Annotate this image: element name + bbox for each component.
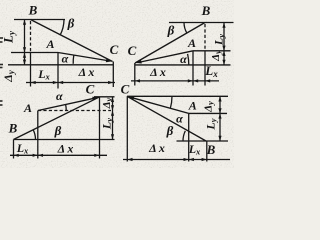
arrow up at A level	[111, 111, 114, 116]
vertical extension below A	[192, 51, 194, 86]
arrows at A vertical	[53, 81, 58, 84]
svg-text:A: A	[23, 101, 32, 115]
bottom dimension line dx / Lx	[131, 80, 219, 82]
arrows at A vertical	[184, 158, 189, 161]
left page-edge artifacts	[0, 38, 3, 105]
vertical extension below C	[134, 63, 136, 86]
bottom dimension line Lx / dx	[26, 82, 115, 84]
arrows at A vertical	[188, 79, 193, 82]
paper grain speckle	[0, 0, 234, 168]
solid vertical extension below B to dimension line	[30, 53, 32, 87]
line C-B	[127, 96, 206, 141]
baseline through C	[8, 64, 113, 66]
svg-text:Δy: Δy	[210, 50, 223, 62]
line B-C	[135, 23, 205, 64]
dashed vertical extension below B	[30, 21, 32, 53]
arrow up at A level	[218, 113, 221, 118]
arrow up at A level	[23, 53, 26, 58]
svg-text:C: C	[128, 43, 137, 58]
arrow down at C baseline	[23, 60, 26, 65]
svg-text:C: C	[121, 82, 130, 97]
svg-text:α: α	[62, 52, 69, 66]
vertical extension below A	[37, 111, 39, 159]
horizontal reference line through A	[193, 50, 231, 52]
vertical extension below A	[57, 53, 59, 89]
svg-text:Δy: Δy	[203, 101, 216, 113]
angle beta arc at B	[60, 20, 64, 36]
horizontal reference line through B	[169, 22, 234, 24]
vertical extension below C	[126, 96, 128, 161]
svg-text:A: A	[188, 99, 197, 113]
svg-text:A: A	[187, 36, 196, 50]
line A-C with arrow at C	[38, 98, 94, 110]
svg-text:A: A	[45, 37, 54, 51]
arrow right at B vertical	[202, 158, 207, 161]
arrow left at C vertical	[135, 79, 140, 82]
left dimension line Ly / dy	[24, 20, 26, 65]
arrow left at B vertical	[205, 79, 210, 82]
edge mark 2	[0, 64, 3, 66]
arrow right at C vertical	[94, 154, 99, 157]
angle alpha arc at A	[65, 104, 68, 110]
svg-text:α: α	[176, 112, 183, 126]
line A-C with arrow at C	[141, 51, 193, 62]
horizontal reference line through B	[14, 19, 65, 21]
arrow down at B level	[218, 136, 221, 141]
vertical extension below B	[13, 140, 15, 159]
arrow down at A level	[218, 108, 221, 113]
arrow up at C baseline	[111, 97, 114, 102]
edge mark 1	[0, 37, 3, 39]
edge mark 3	[0, 100, 3, 102]
arrow up at A level	[222, 51, 225, 56]
arrow left at B vertical	[31, 81, 36, 84]
baseline through C	[127, 95, 228, 97]
svg-text:Δx: Δx	[149, 65, 166, 79]
vertical extension below B	[206, 141, 208, 162]
angle alpha arc near C	[72, 55, 75, 64]
svg-text:α: α	[180, 52, 187, 66]
arrows at A vertical	[33, 154, 38, 157]
svg-text:β: β	[167, 23, 175, 38]
right dimension line dy / Ly	[219, 96, 221, 141]
svg-text:B: B	[8, 121, 18, 136]
arrow left at C vertical	[127, 158, 132, 161]
arrow down at A level	[23, 47, 26, 52]
horizontal reference line through A	[11, 52, 58, 54]
line A-C with arrow at C	[58, 53, 107, 61]
angle alpha arc near C	[170, 96, 172, 108]
arrow up at B level	[222, 23, 225, 28]
dashed vertical extension below B	[204, 24, 206, 51]
line C-A with arrow at C	[132, 98, 189, 114]
arrow up at B level	[23, 20, 26, 25]
arrow left at B vertical	[14, 154, 19, 157]
horizontal reference line through A	[189, 112, 227, 114]
svg-text:C: C	[86, 82, 95, 97]
arrow up at C baseline	[218, 96, 221, 101]
svg-text:β: β	[54, 123, 62, 138]
bottom dimension line Lx / dx	[10, 154, 107, 156]
bottom dimension line dx / Lx	[123, 159, 230, 161]
right dimension line Ly / dy	[223, 23, 225, 65]
svg-text:Δy: Δy	[101, 97, 114, 109]
angle beta arc at B	[33, 130, 35, 140]
baseline through C (short, to the right)	[94, 96, 115, 98]
line B-C	[31, 20, 113, 62]
arrow down at A level	[111, 105, 114, 110]
arrow right at C vertical	[108, 81, 113, 84]
angle beta arc at B	[183, 131, 185, 141]
svg-text:β: β	[166, 123, 174, 138]
arrow down at B level	[111, 134, 114, 139]
vertical extension below C	[99, 97, 101, 159]
baseline through C	[135, 64, 231, 66]
horizontal reference line through B	[14, 139, 115, 141]
angle beta arc at B	[184, 23, 187, 34]
arrow down at C baseline	[222, 60, 225, 65]
dashed horizontal reference line through A	[38, 110, 111, 112]
horizontal reference line through B	[177, 140, 229, 142]
svg-text:α: α	[56, 89, 63, 103]
svg-text:Δx: Δx	[148, 141, 165, 155]
svg-text:B: B	[201, 3, 211, 18]
right dimension line dy / Ly	[112, 97, 114, 140]
svg-text:B: B	[28, 3, 38, 18]
arrow down at A level	[222, 46, 225, 51]
svg-text:Δx: Δx	[57, 142, 74, 156]
svg-text:C: C	[110, 42, 119, 57]
paper background	[0, 0, 234, 168]
svg-text:β: β	[67, 16, 75, 31]
vertical extension below A	[188, 113, 190, 161]
vertical extension below C	[112, 62, 114, 88]
solid vertical extension below B	[204, 51, 206, 86]
svg-text:Δx: Δx	[78, 65, 95, 79]
svg-text:B: B	[206, 142, 216, 157]
line B-C	[14, 97, 100, 139]
angle alpha arc near C	[188, 54, 189, 65]
